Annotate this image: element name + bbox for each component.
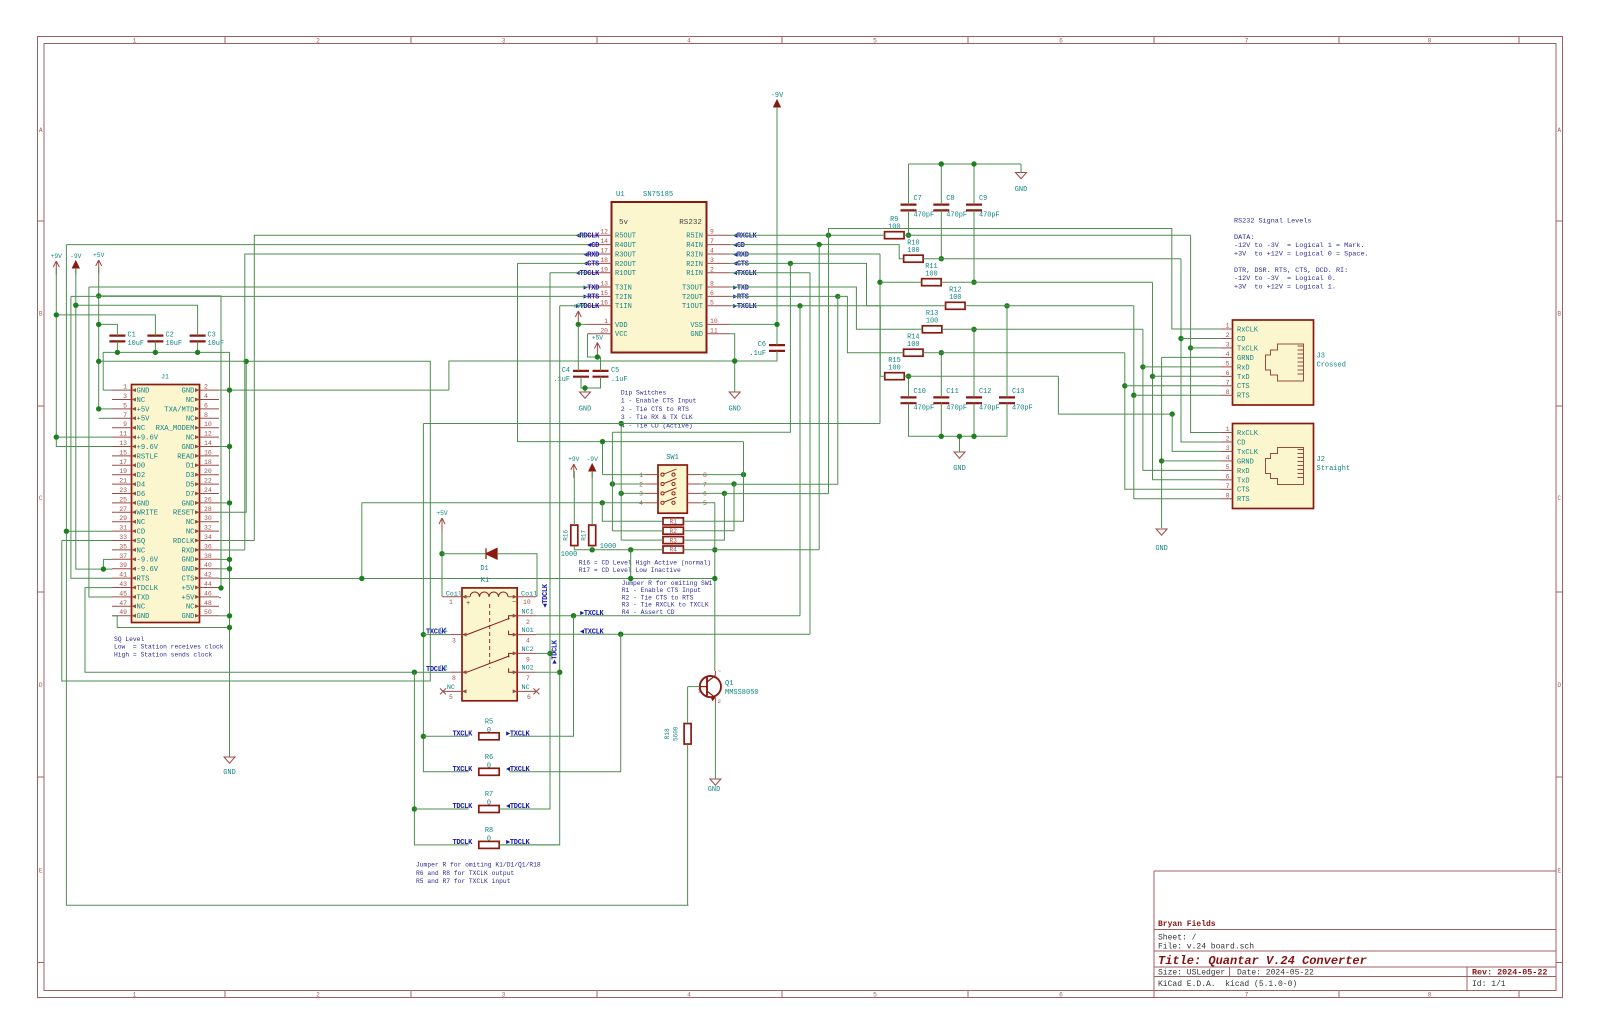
wire TXCLK to K1 C1 [423, 634, 450, 636]
junction [582, 385, 587, 390]
svg-text:TDCLK: TDCLK [452, 839, 473, 847]
svg-text:NC: NC [137, 519, 146, 527]
wire -9V vertical [776, 107, 778, 345]
wire to D1 anode [442, 553, 486, 555]
svg-text:RxCLK: RxCLK [1237, 430, 1259, 438]
svg-text:READ: READ [177, 453, 194, 461]
wire TxD to J2 pin6 [1153, 282, 1221, 480]
svg-text:U1: U1 [616, 191, 625, 199]
svg-text:TXCLK: TXCLK [426, 629, 447, 637]
svg-text:KiCad E.D.A. kicad (5.1.0-0): KiCad E.D.A. kicad (5.1.0-0) [1158, 980, 1297, 989]
wire C1 bottom [116, 341, 118, 352]
svg-text:T2OUT: T2OUT [682, 294, 703, 302]
svg-text:+5V: +5V [182, 594, 196, 602]
svg-text:3: 3 [639, 491, 643, 498]
svg-text:.1uF: .1uF [611, 376, 628, 384]
power flag +9V at SW1 [571, 464, 577, 478]
junction [227, 566, 232, 571]
svg-text:R5OUT: R5OUT [615, 233, 636, 241]
svg-text:CD: CD [137, 529, 146, 537]
svg-text:4: 4 [1226, 454, 1230, 461]
wire K1 NC1 TXCLK out row [536, 615, 800, 617]
svg-text:GND: GND [137, 388, 150, 396]
svg-text:R1IN: R1IN [686, 270, 703, 278]
svg-text:GND: GND [182, 566, 195, 574]
svg-text:R5IN: R5IN [686, 233, 703, 241]
wire RXCLK U1 side to J3 pin1 [829, 229, 1221, 330]
wire RTS row from U1 [71, 295, 588, 297]
wire J1 GND pin [219, 615, 230, 617]
capacitor C1 [109, 336, 125, 342]
wire SW1 pin1 row [603, 474, 646, 476]
svg-text:12: 12 [600, 229, 608, 236]
svg-text:6: 6 [1226, 473, 1230, 480]
svg-text:GND: GND [182, 444, 195, 452]
svg-text:R3OUT: R3OUT [615, 251, 636, 259]
wire VSS to -9V rail [730, 323, 778, 325]
svg-text:D3: D3 [186, 472, 195, 480]
wire J1 GND pin [219, 502, 230, 504]
wire +5V to J1 pin7 [99, 417, 112, 419]
resistor R15 [885, 373, 905, 380]
junction [101, 566, 106, 571]
junction [939, 256, 944, 261]
svg-text:+9V: +9V [51, 253, 63, 260]
wire cap top [940, 164, 942, 205]
svg-text:SN75185: SN75185 [643, 191, 673, 199]
svg-text:8: 8 [452, 675, 456, 682]
svg-text:R3IN: R3IN [686, 251, 703, 259]
svg-text:►TXD: ►TXD [733, 284, 749, 292]
svg-text:2: 2 [710, 266, 714, 273]
wire Q1 base [688, 686, 700, 688]
wire CTS long row from J1 pin42 [219, 578, 715, 580]
wire cap top [908, 164, 910, 205]
svg-text:VSS: VSS [690, 322, 703, 330]
svg-text:Crossed: Crossed [1317, 362, 1346, 370]
svg-text:DTR, DSR. RTS, CTS, DCD. RI:: DTR, DSR. RTS, CTS, DCD. RI: [1234, 267, 1348, 275]
svg-text:24: 24 [204, 487, 212, 494]
wire R9 out row [904, 234, 1191, 236]
svg-text:C10: C10 [914, 388, 926, 396]
junction [218, 585, 223, 590]
junction [1178, 336, 1183, 341]
wire T1OUT row [730, 305, 881, 307]
svg-text:GND: GND [953, 465, 965, 473]
wire TXCLK out vertical [799, 306, 801, 616]
wire CTS row at U1 left [518, 262, 588, 264]
svg-text:-9V: -9V [587, 456, 599, 463]
svg-text:-12V to -3V = Logical 1 = Mar: -12V to -3V = Logical 1 = Mark. [1234, 242, 1365, 250]
svg-text:4: 4 [1226, 351, 1230, 358]
svg-text:►TXD: ►TXD [583, 284, 599, 292]
svg-text:A: A [1557, 127, 1561, 134]
svg-text:GND: GND [182, 500, 195, 508]
junction [817, 242, 822, 247]
capacitor C9 [966, 205, 982, 211]
svg-text:R17: R17 [581, 530, 588, 541]
wire R5IN to R9 [730, 234, 885, 236]
wire GND vertical at J2 [1161, 357, 1163, 528]
power flag +5V at D1 [439, 518, 445, 532]
svg-text:R16 = CD Level High Active (no: R16 = CD Level High Active (normal) [579, 560, 711, 567]
svg-text:2: 2 [718, 698, 722, 705]
svg-text:◄TDCLK: ◄TDCLK [542, 583, 550, 608]
ground below J1 [224, 757, 235, 763]
svg-text:3: 3 [1226, 445, 1230, 452]
svg-text:CTS: CTS [1237, 487, 1250, 495]
svg-text:10: 10 [523, 599, 531, 606]
svg-text:19: 19 [600, 266, 608, 273]
svg-text:NO2: NO2 [522, 665, 534, 673]
svg-text:-9.6V: -9.6V [137, 557, 159, 565]
wire SW1 pin3 vertical [620, 424, 622, 541]
junction [600, 439, 605, 444]
svg-text:Jumper R for omiting SW1: Jumper R for omiting SW1 [622, 580, 713, 587]
svg-text:13: 13 [119, 440, 127, 447]
wire J1 pin2 GND row [219, 389, 449, 391]
svg-text:-9V: -9V [771, 92, 784, 100]
ground below U1 pin 11 [729, 392, 740, 398]
wire C11 bottom [940, 403, 942, 436]
wire -9.6V join [102, 559, 104, 569]
svg-text:C5: C5 [611, 367, 619, 375]
wire -9V rail to J1 pin39 [76, 268, 112, 569]
wire TDCLK from J1 pin43 to K1 C2 [85, 588, 450, 673]
svg-text:NC: NC [522, 684, 530, 692]
svg-text:D5: D5 [186, 482, 195, 490]
svg-text:◄TXCLK: ◄TXCLK [580, 629, 605, 637]
svg-text:GND: GND [708, 786, 720, 794]
wire C8 to R10 row [940, 210, 942, 258]
junction [628, 576, 633, 581]
junction [54, 312, 59, 317]
wire to GND below caps [959, 436, 961, 452]
wire SW1 pin4 down to CTS row [361, 503, 363, 579]
svg-text:+5V: +5V [436, 510, 448, 517]
svg-text:R18: R18 [664, 728, 671, 739]
wire R1IN vertical [809, 273, 811, 634]
svg-text:R4IN: R4IN [686, 242, 703, 250]
wire R1IN row [730, 272, 811, 274]
svg-text:1: 1 [133, 992, 137, 999]
wire C5 bottom to GND [585, 377, 601, 388]
wire T3OUT to R13 [730, 287, 923, 329]
wire U1 GND pin down [730, 334, 735, 392]
wire SQ loop [62, 361, 431, 681]
svg-text:7: 7 [123, 412, 127, 419]
junction [1004, 303, 1009, 308]
wire GND to J2 pin4 [1162, 460, 1221, 462]
svg-text:C1: C1 [128, 332, 136, 340]
junction [421, 734, 426, 739]
svg-text:RESET: RESET [173, 510, 195, 518]
svg-text:27: 27 [119, 506, 127, 513]
junction [412, 670, 417, 675]
ground below C10-C13 [954, 452, 965, 458]
wire C4 bottom to GND [581, 377, 585, 392]
svg-text:47: 47 [119, 600, 127, 607]
svg-text:R1: R1 [670, 519, 678, 526]
svg-text:Straight: Straight [1317, 465, 1351, 473]
svg-text:48: 48 [204, 600, 212, 607]
svg-text:470pF: 470pF [979, 405, 1000, 413]
svg-text:+: + [466, 600, 470, 608]
svg-text:1: 1 [1226, 323, 1230, 330]
svg-text:18: 18 [600, 257, 608, 264]
svg-text:Bryan Fields: Bryan Fields [1158, 920, 1216, 929]
svg-text:6: 6 [1059, 38, 1063, 45]
svg-text:3: 3 [452, 638, 456, 645]
svg-text:T2IN: T2IN [615, 294, 632, 302]
junction [227, 500, 232, 505]
wire GND vertical at J1 [229, 390, 231, 757]
svg-text:R6 and R8 for TXCLK output: R6 and R8 for TXCLK output [416, 870, 514, 877]
junction [1140, 364, 1145, 369]
svg-text:TDCLK: TDCLK [452, 803, 473, 811]
svg-text:D6: D6 [137, 491, 146, 499]
wire R14 out row [923, 352, 1125, 354]
capacitor C10 [901, 397, 917, 403]
capacitor C3 [190, 336, 206, 342]
svg-text:B: B [39, 311, 43, 318]
svg-text:8: 8 [1428, 992, 1432, 999]
wire TXCLK to R5 left [423, 735, 468, 737]
wire GND to J3 pin4 [1162, 356, 1221, 358]
svg-text:10uF: 10uF [128, 340, 145, 348]
svg-text:39: 39 [119, 562, 127, 569]
svg-text:+9V: +9V [568, 456, 580, 463]
svg-text:◄CTS: ◄CTS [583, 261, 599, 269]
junction [1131, 393, 1136, 398]
svg-text:+5V: +5V [137, 416, 151, 424]
svg-text:11: 11 [119, 431, 127, 438]
svg-text:J1: J1 [161, 374, 169, 381]
svg-text:4: 4 [687, 992, 691, 999]
wire R11 out row [941, 281, 1152, 283]
wire to R11 left [880, 281, 922, 283]
svg-text:25: 25 [119, 496, 127, 503]
svg-text:◄CD: ◄CD [587, 242, 599, 250]
svg-text:R1 - Enable CTS Input: R1 - Enable CTS Input [622, 587, 702, 594]
svg-text:41: 41 [119, 572, 127, 579]
capacitor C5 [593, 371, 609, 377]
junction [96, 406, 101, 411]
svg-text:RTS: RTS [1237, 496, 1250, 504]
wire R10 out row [923, 258, 1181, 260]
svg-text:T1IN: T1IN [615, 303, 632, 311]
wire C11 to R14 row [940, 353, 942, 398]
svg-text:CD: CD [1237, 439, 1245, 447]
svg-text:33: 33 [119, 534, 127, 541]
svg-text:RXD: RXD [182, 547, 195, 555]
svg-text:1: 1 [604, 318, 608, 325]
junction [54, 434, 59, 439]
svg-text:+5V: +5V [93, 252, 105, 259]
svg-text:C8: C8 [946, 195, 954, 203]
svg-text:7: 7 [710, 238, 714, 245]
wire TXCLK top row [423, 423, 880, 425]
wire R18 bottom to bus [687, 744, 689, 905]
wire to J1 pin37 [103, 558, 112, 560]
svg-text:RXA_MODEM: RXA_MODEM [156, 425, 195, 433]
wire SW1 pin3 row [621, 492, 645, 494]
connector J3 [1233, 320, 1314, 405]
svg-text:2 - Tie CTS to RTS: 2 - Tie CTS to RTS [621, 406, 689, 413]
wire CD vertical to R4 row [818, 245, 820, 550]
svg-text:TxCLK: TxCLK [1237, 345, 1259, 353]
junction [571, 613, 576, 618]
svg-text:+9V: +9V [573, 303, 585, 310]
svg-text:100: 100 [925, 270, 937, 278]
wire TXCLK out route [1058, 376, 1172, 414]
svg-text:R4OUT: R4OUT [615, 242, 636, 250]
svg-text:T3OUT: T3OUT [682, 284, 703, 292]
svg-text:100: 100 [949, 294, 961, 302]
junction [939, 434, 944, 439]
junction [877, 280, 882, 285]
svg-text:36: 36 [204, 543, 212, 550]
wire SW1 pin6 to R3 [683, 493, 724, 540]
svg-text:45: 45 [119, 590, 127, 597]
svg-text:4: 4 [639, 500, 643, 507]
svg-text:-9.6V: -9.6V [137, 566, 159, 574]
svg-text:D0: D0 [137, 463, 146, 471]
svg-text:.1uF: .1uF [553, 376, 570, 384]
svg-text:◄CD: ◄CD [733, 242, 745, 250]
junction [957, 434, 962, 439]
svg-text:5: 5 [449, 694, 453, 701]
wire C12 bottom [973, 403, 975, 436]
junction [600, 500, 605, 505]
junction [115, 350, 120, 355]
svg-text:.1uF: .1uF [749, 350, 766, 358]
svg-text:GND: GND [137, 613, 150, 621]
svg-text:GND: GND [1155, 545, 1167, 553]
wire CD to J2 pin2 [1181, 259, 1220, 442]
wire to GND top right [1020, 164, 1022, 173]
svg-text:►RTS: ►RTS [583, 294, 599, 302]
svg-text:D1: D1 [480, 565, 488, 573]
svg-text:1: 1 [639, 472, 643, 479]
svg-text:Coil: Coil [521, 590, 537, 598]
dip switch SW1 body [658, 465, 687, 513]
wire C9 to R11 row [973, 210, 975, 282]
svg-text:43: 43 [119, 581, 127, 588]
svg-text:CD: CD [1237, 336, 1245, 344]
svg-text:-9V: -9V [70, 253, 82, 260]
wire VCC down [588, 334, 598, 357]
wire GND rail to J1 pin1 [103, 389, 112, 391]
wire CD row from U1 [66, 244, 587, 246]
svg-text:A: A [39, 127, 43, 134]
svg-text:GND: GND [579, 406, 591, 414]
wire SW1 pin8 [700, 474, 743, 476]
svg-text:NC1: NC1 [522, 608, 534, 616]
wire K1 NO1 TXCLK in row [536, 633, 810, 635]
svg-text:VCC: VCC [615, 331, 628, 339]
junction [628, 547, 633, 552]
wire to R2 left [612, 530, 663, 532]
svg-text:13: 13 [600, 281, 608, 288]
power flag -9V left [72, 261, 79, 268]
resistor R7 [479, 806, 499, 813]
svg-text:High = Station sends clock: High = Station sends clock [114, 652, 212, 659]
svg-text:5v: 5v [619, 219, 629, 227]
connector J2 [1233, 424, 1314, 509]
svg-text:470pF: 470pF [914, 212, 935, 220]
junction [96, 359, 101, 364]
svg-text:J3: J3 [1317, 353, 1325, 361]
wire SQ to J1 pin33 [62, 540, 112, 542]
wire TDCLK out row at U1 left [560, 305, 588, 307]
svg-text:R3 - Tie RXCLK to TXCLK: R3 - Tie RXCLK to TXCLK [622, 602, 709, 609]
junction [153, 350, 158, 355]
junction [712, 576, 717, 581]
svg-text:+9.6V: +9.6V [137, 444, 159, 452]
junction [547, 651, 552, 656]
IC U1 body [612, 202, 707, 353]
svg-text:7: 7 [1245, 992, 1249, 999]
svg-text:R4: R4 [670, 547, 678, 554]
wire RTS vertical to SW1 [837, 296, 839, 484]
svg-text:VDD: VDD [615, 322, 628, 330]
svg-text:5: 5 [710, 299, 714, 306]
resistor R8 [479, 841, 499, 848]
svg-text:5: 5 [703, 500, 707, 507]
wire CTS right to SW1 net [612, 263, 790, 432]
wire R13 out row [942, 328, 1143, 330]
wire +5V to C1 top [99, 324, 118, 335]
svg-text:C3: C3 [208, 332, 216, 340]
svg-text:TxD: TxD [1237, 374, 1250, 382]
svg-text:C2: C2 [166, 332, 174, 340]
svg-text:470pF: 470pF [946, 405, 967, 413]
svg-text:NC: NC [186, 435, 195, 443]
svg-text:R5: R5 [485, 718, 493, 726]
svg-text:49: 49 [119, 609, 127, 616]
svg-text:NC: NC [186, 529, 195, 537]
svg-text:5600: 5600 [673, 726, 680, 741]
svg-text:File: v.24 board.sch: File: v.24 board.sch [1158, 943, 1254, 952]
wire R4IN to R10 [730, 245, 904, 259]
svg-text:470pF: 470pF [946, 212, 967, 220]
junction [619, 421, 624, 426]
svg-text:100: 100 [888, 223, 900, 231]
svg-text:►TDCLK: ►TDCLK [552, 639, 560, 664]
svg-text:R3: R3 [670, 537, 678, 544]
wire CTS to J2 pin7 [1125, 353, 1221, 490]
svg-text:1000: 1000 [561, 551, 578, 559]
svg-text:3 - Tie RX & TX CLK: 3 - Tie RX & TX CLK [621, 414, 693, 421]
wire R17 bottom [591, 546, 593, 550]
svg-text:8: 8 [1226, 492, 1230, 499]
svg-text:9: 9 [710, 229, 714, 236]
svg-text:TXCLK: TXCLK [452, 766, 473, 774]
wire R8 right [499, 844, 560, 846]
svg-text:D1: D1 [186, 463, 195, 471]
svg-text:+5V: +5V [137, 406, 151, 414]
svg-text:RDCLK: RDCLK [173, 538, 195, 546]
svg-text:◄RDCLK: ◄RDCLK [576, 233, 601, 241]
svg-text:NC: NC [186, 397, 195, 405]
resistors R1-R4 [663, 518, 683, 525]
svg-text:CTS: CTS [182, 576, 195, 584]
wire -9V to C3 top [76, 305, 198, 335]
svg-text:16: 16 [204, 449, 212, 456]
junction [359, 576, 364, 581]
svg-text:20: 20 [600, 327, 608, 334]
